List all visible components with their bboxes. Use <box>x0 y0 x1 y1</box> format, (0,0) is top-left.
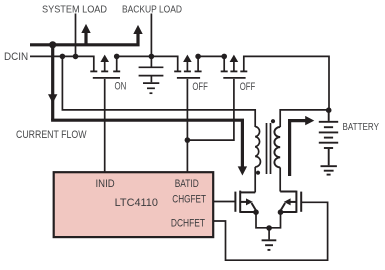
ground (power NMOS common source) <box>262 240 277 250</box>
wire BACKUP LOAD drop <box>150 14 152 57</box>
primary bottom lead <box>254 167 256 193</box>
wire thick down from DCIN <box>51 45 54 120</box>
wire thick discharge to battery <box>290 121 307 176</box>
node thick dcin junction <box>49 41 56 48</box>
IC U1 LTC4110 <box>54 172 214 237</box>
svg-text:CURRENT FLOW: CURRENT FLOW <box>16 129 87 141</box>
wire M2 source to ground node <box>269 212 280 228</box>
node system load junction <box>73 54 79 60</box>
wire DCIN thin bus to Q1 <box>30 56 94 70</box>
svg-text:INID: INID <box>96 178 115 190</box>
battery BT1 <box>319 110 338 165</box>
node dcin branch junction <box>60 54 66 60</box>
transistor Q2 (PMOS OFF) <box>174 54 208 94</box>
arrowhead current flow down <box>48 94 57 103</box>
svg-text:BATID: BATID <box>175 178 199 190</box>
wire Q1 to Q2 bus <box>117 56 178 70</box>
wire DCIN branch down to transformer primary top <box>62 56 255 127</box>
ground (battery) <box>321 166 337 174</box>
wire DCHFET loop to M2 gate <box>213 202 327 260</box>
ground (capacitor) <box>143 83 159 93</box>
wire thick to transformer <box>51 120 242 167</box>
wire thick DCIN bus <box>30 33 138 45</box>
wire BATID to Q2 gate <box>186 79 188 172</box>
svg-text:DCIN: DCIN <box>4 51 28 63</box>
node batid junction <box>185 137 191 143</box>
capacitor C1 backup reservoir <box>139 56 164 82</box>
transistor M1 (charge NMOS) <box>235 191 256 213</box>
transformer T1 <box>255 123 280 192</box>
node M2 source <box>278 209 284 215</box>
arrowhead system load <box>81 24 90 33</box>
wire Q2 gate to Q3 gate <box>187 79 234 140</box>
svg-text:ON: ON <box>115 81 127 93</box>
svg-text:LTC4110: LTC4110 <box>115 197 158 209</box>
primary winding <box>255 127 260 167</box>
svg-text:DCHFET: DCHFET <box>171 218 205 230</box>
node backup cap junction <box>149 54 155 60</box>
core <box>266 123 268 174</box>
transistor M2 (discharge NMOS) <box>280 191 301 213</box>
node M1 source <box>253 209 259 215</box>
node phase dot secondary <box>271 119 275 123</box>
arrowhead into transformer <box>238 166 247 175</box>
secondary bottom lead <box>279 167 281 191</box>
arrowhead backup load <box>133 25 142 34</box>
secondary winding <box>274 127 280 167</box>
wire Q2 to Q3 bus <box>198 55 224 57</box>
transistor Q1 (PMOS ON) <box>90 54 126 93</box>
svg-text:CHGFET: CHGFET <box>172 194 206 206</box>
wire Q3 to battery top <box>244 56 329 110</box>
svg-text:OFF: OFF <box>240 81 256 93</box>
svg-text:OFF: OFF <box>192 81 208 93</box>
wire thick system load branch <box>84 31 87 45</box>
node phase dot primary <box>256 171 260 175</box>
wire M1 source to ground node <box>256 212 269 228</box>
node battery positive <box>326 107 332 113</box>
transistor Q3 (PMOS OFF) <box>221 54 256 94</box>
arrowhead into battery <box>305 116 314 125</box>
svg-text:SYSTEM LOAD: SYSTEM LOAD <box>42 5 107 16</box>
wire ground node stem <box>268 228 270 240</box>
node junction dots <box>60 54 332 231</box>
wire INID to Q1 gate <box>104 79 106 172</box>
current flow path (thick) <box>30 31 307 176</box>
node common source ground <box>266 225 272 231</box>
wire SYSTEM LOAD drop <box>75 14 77 57</box>
svg-text:BATTERY: BATTERY <box>343 122 380 133</box>
wire CHGFET to M1 gate <box>213 201 234 203</box>
wire transformer secondary top to battery node <box>280 110 329 127</box>
